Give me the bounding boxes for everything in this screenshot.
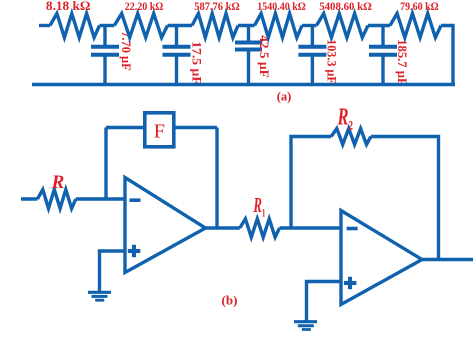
capacitor C5	[369, 26, 397, 85]
wire U2 plus input	[307, 282, 342, 322]
capacitor C3	[235, 26, 262, 85]
op-amp U2	[341, 211, 422, 305]
wire U2 output	[420, 258, 473, 261]
wire feedback to F box	[106, 126, 143, 129]
svg-text:42.5 µF: 42.5 µF	[257, 35, 271, 78]
wire bottom rail	[32, 83, 455, 86]
svg-text:22.20 kΩ: 22.20 kΩ	[125, 0, 164, 13]
resistor 587.76 kOhm	[192, 14, 238, 38]
ground 2	[294, 322, 317, 330]
resistor 79.60 kOhm	[390, 14, 441, 38]
wire node 5	[368, 24, 390, 27]
svg-text:587.76 kΩ: 587.76 kΩ	[194, 0, 240, 13]
resistor R2	[331, 129, 371, 145]
svg-text:103.3 µF: 103.3 µF	[324, 39, 338, 84]
wire input stub (a)	[39, 24, 50, 27]
svg-text:R1: R1	[253, 193, 266, 220]
svg-text:185.7 µF: 185.7 µF	[395, 39, 409, 86]
wire top right corner	[441, 26, 453, 85]
capacitor C4	[298, 26, 326, 85]
wire to U1 inverting input	[76, 197, 125, 200]
resistor 22.20 kOhm	[114, 14, 167, 38]
svg-text:F: F	[154, 121, 165, 143]
op-amp U1	[125, 178, 206, 273]
resistor 8.18 kOhm	[50, 14, 100, 38]
capacitor C2	[163, 26, 191, 85]
svg-text:R2: R2	[337, 104, 353, 132]
block F	[145, 113, 174, 147]
resistor R	[37, 190, 75, 209]
wire input (b)	[21, 197, 37, 200]
svg-text:(b): (b)	[222, 293, 238, 308]
wire R2 left vertical	[291, 137, 331, 229]
svg-text:(a): (a)	[277, 90, 292, 104]
svg-text:R: R	[51, 172, 65, 193]
svg-text:1540.40 kΩ: 1540.40 kΩ	[257, 0, 306, 13]
wire U1 plus input	[100, 251, 126, 292]
svg-text:79.60 kΩ: 79.60 kΩ	[400, 0, 439, 13]
capacitor C1	[91, 26, 119, 85]
wire feedback right vertical	[215, 128, 218, 229]
wire feedback left vertical	[104, 128, 107, 200]
wire R1 to U2 inverting input	[280, 226, 342, 229]
resistor 1540.40 kOhm	[255, 14, 303, 38]
wire node 3	[238, 24, 255, 27]
resistor R1	[240, 219, 280, 237]
ground 1	[88, 292, 111, 300]
resistor 5408.60 kOhm	[317, 14, 369, 38]
wire F box to right vertical	[176, 126, 218, 129]
wire node 4	[302, 24, 317, 27]
wire node 1	[100, 24, 115, 27]
wire U1 output	[204, 226, 240, 229]
wire node 2	[168, 24, 193, 27]
wire R2 right side	[371, 137, 439, 260]
svg-text:5408.60 kΩ: 5408.60 kΩ	[319, 0, 372, 13]
svg-text:17.5 µF: 17.5 µF	[189, 41, 203, 85]
svg-text:8.18 kΩ: 8.18 kΩ	[46, 0, 91, 13]
